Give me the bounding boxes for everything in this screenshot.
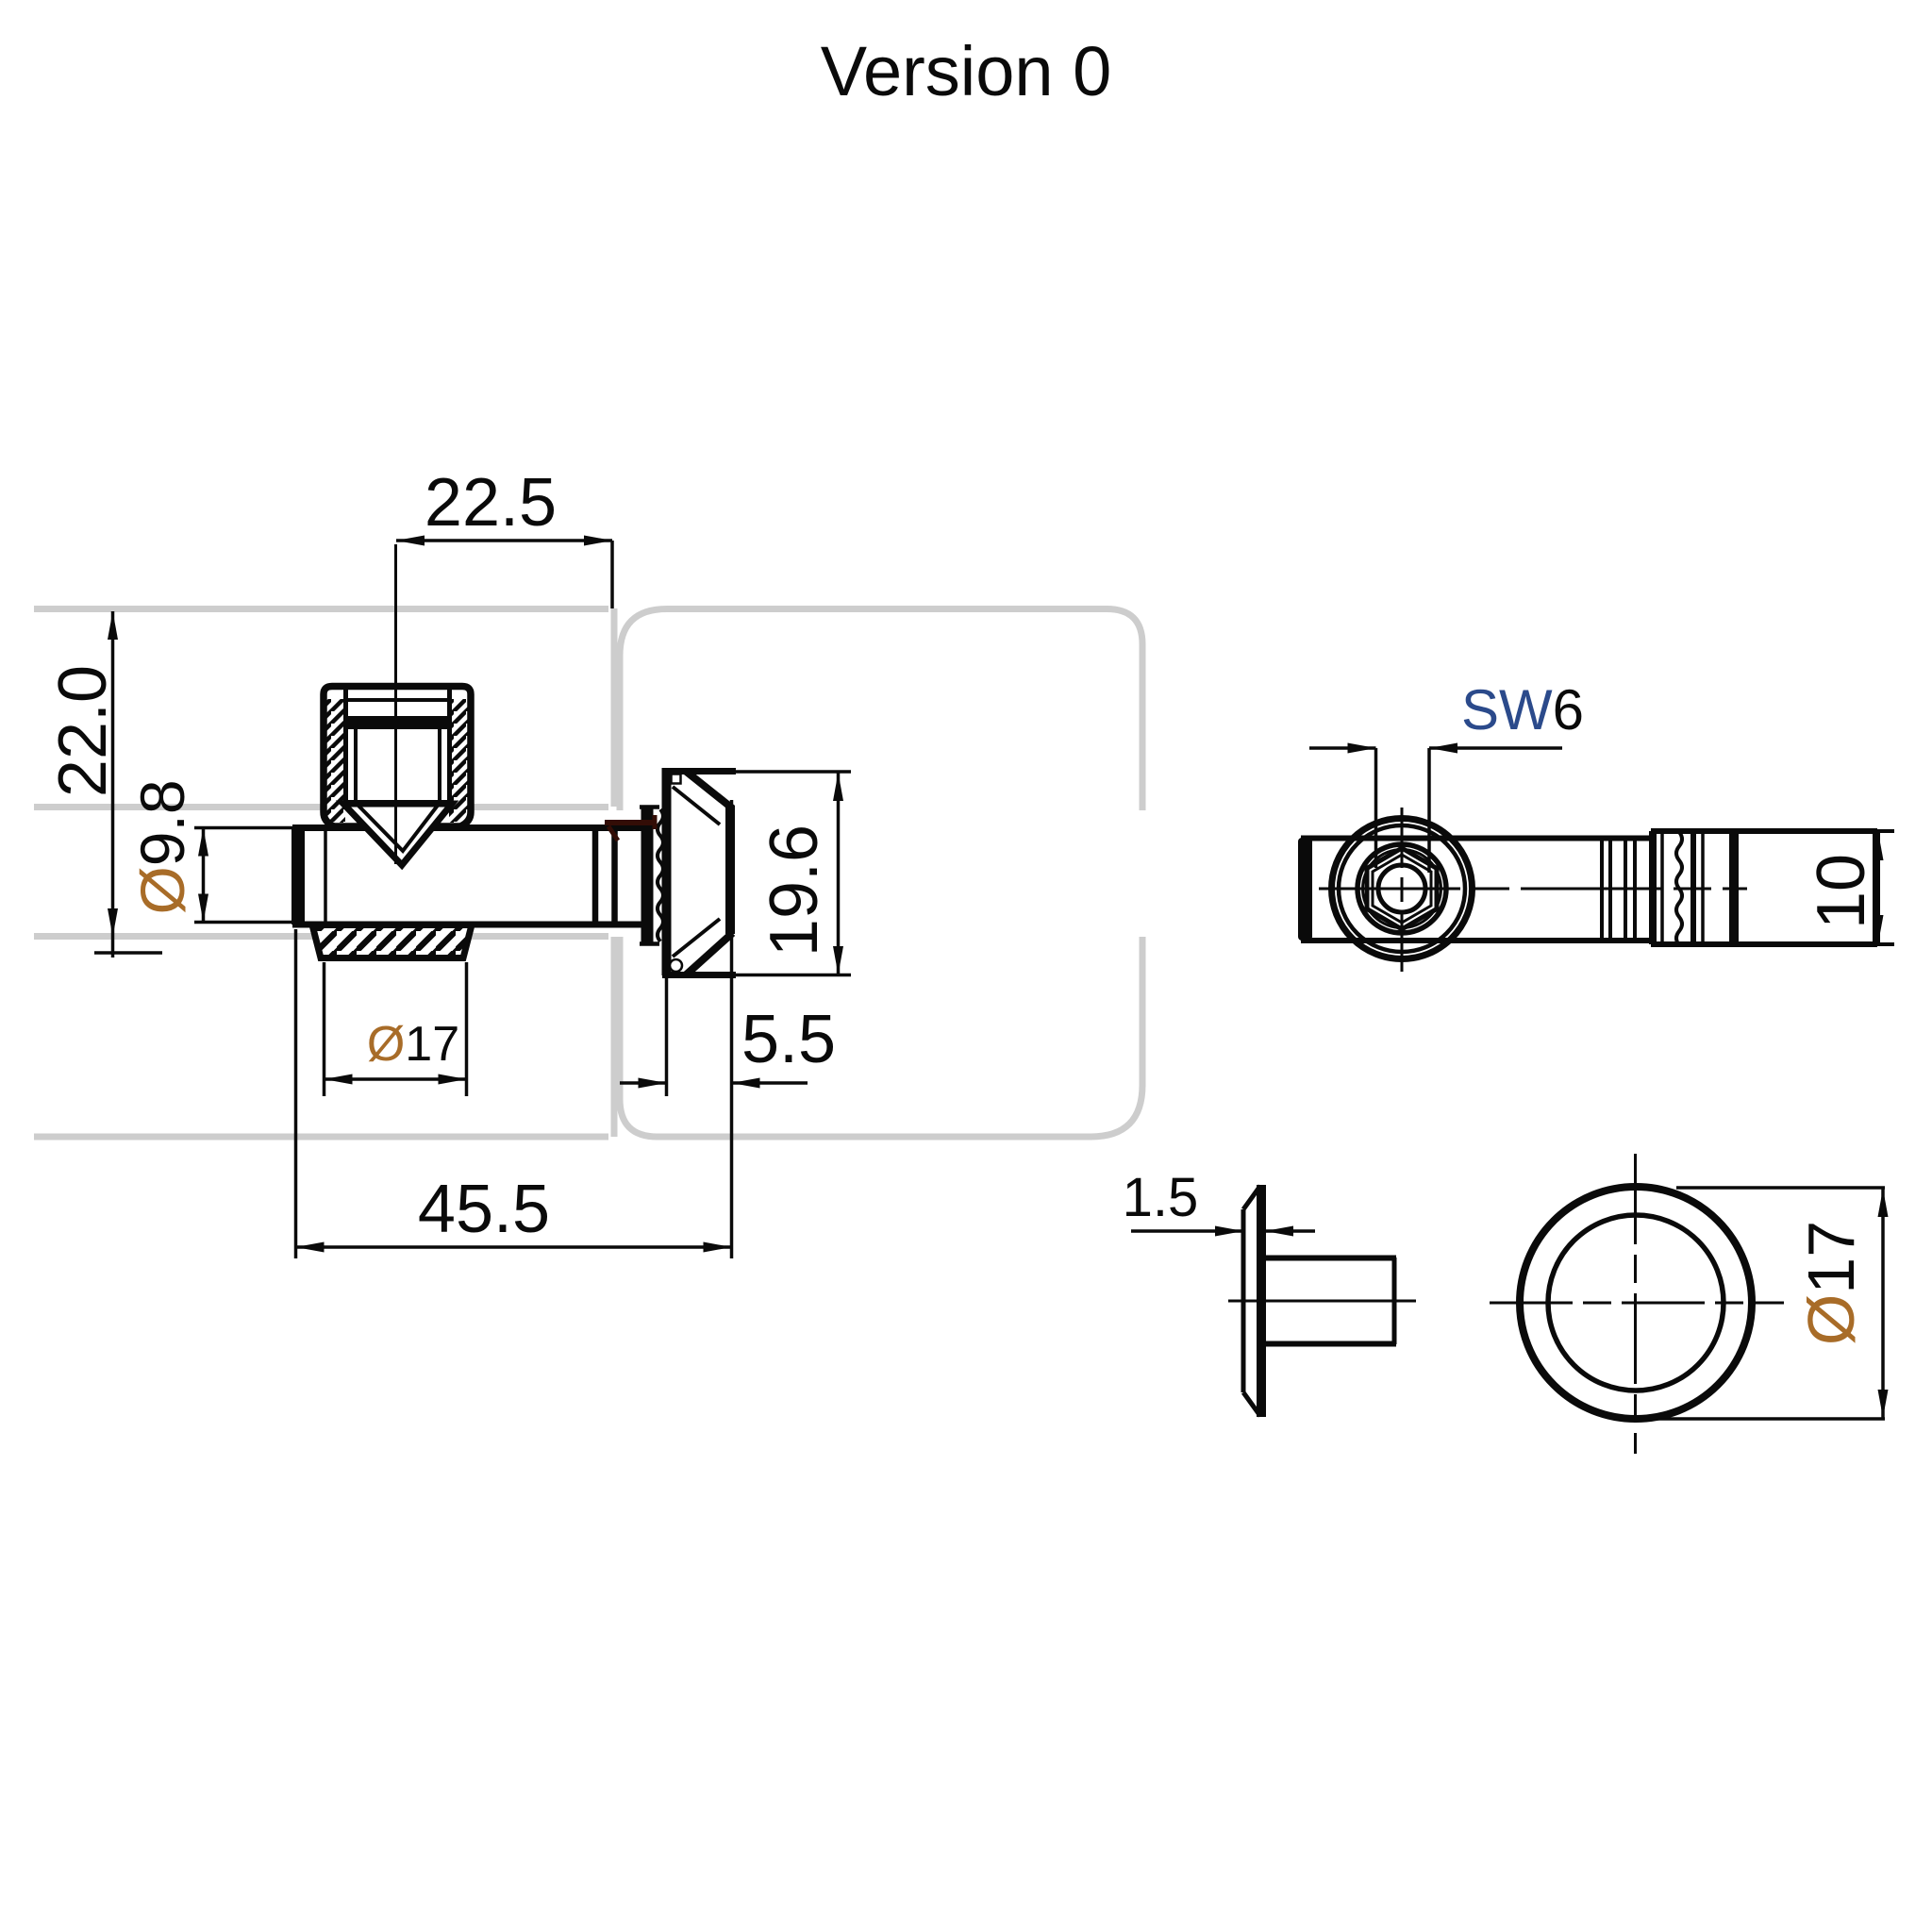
left profile slot top line bbox=[34, 804, 608, 810]
svg-text:Ø17: Ø17 bbox=[367, 1017, 459, 1072]
left profile top face line bbox=[34, 606, 608, 612]
hex socket bbox=[1367, 848, 1437, 929]
side view centerlines bbox=[1319, 808, 1747, 972]
screw axis centerline bbox=[394, 544, 397, 864]
svg-text:19.6: 19.6 bbox=[757, 824, 832, 957]
dimension Ø17 (cap view) bbox=[1638, 1188, 1889, 1419]
dark red cap edge accents bbox=[605, 815, 655, 841]
right profile outline upper part bbox=[620, 609, 1142, 811]
dimension 10 bbox=[1804, 831, 1894, 944]
svg-text:5.5: 5.5 bbox=[741, 1002, 836, 1077]
dimension 45.5 bbox=[296, 800, 732, 1258]
cover cap disc (hatched, section) bbox=[312, 925, 472, 958]
svg-text:Version 0: Version 0 bbox=[821, 32, 1112, 110]
side view body cylinder bbox=[1298, 838, 1651, 941]
svg-text:Ø9.8: Ø9.8 bbox=[127, 779, 197, 914]
left profile right edge upper bbox=[611, 608, 618, 807]
svg-text:1.5: 1.5 bbox=[1123, 1167, 1199, 1228]
dimension Ø9.8 bbox=[127, 779, 292, 922]
connector body shaft bbox=[291, 827, 642, 924]
left profile right edge lower bbox=[611, 937, 618, 1137]
svg-text:10: 10 bbox=[1804, 854, 1879, 929]
svg-text:22.0: 22.0 bbox=[45, 665, 121, 797]
dimension 22.5 bbox=[396, 465, 612, 608]
right profile outline lower part bbox=[620, 937, 1142, 1137]
svg-text:SW6: SW6 bbox=[1461, 678, 1584, 741]
svg-text:Ø17: Ø17 bbox=[1794, 1221, 1868, 1345]
cap front view circles bbox=[1490, 1154, 1784, 1454]
left profile bottom face line bbox=[34, 1134, 608, 1141]
dimension 22.0 bbox=[45, 611, 162, 958]
T-hammer head bbox=[662, 768, 851, 975]
serrated washer bbox=[640, 807, 663, 944]
dimension 5.5 bbox=[620, 975, 836, 1096]
cap side view body bbox=[1228, 1257, 1416, 1344]
dimension SW6 bbox=[1309, 678, 1584, 873]
side view washer and head end bbox=[1651, 831, 1877, 945]
svg-text:22.5: 22.5 bbox=[425, 465, 557, 541]
dimension 1.5 bbox=[1123, 1167, 1315, 1237]
dimension Ø17 (main view) bbox=[325, 962, 467, 1096]
side view groove rings bbox=[1602, 839, 1635, 940]
shaft groove rings bbox=[595, 828, 615, 924]
left profile slot bottom line bbox=[34, 933, 608, 940]
screw head circles (top view) bbox=[1332, 819, 1473, 959]
svg-text:45.5: 45.5 bbox=[418, 1172, 550, 1247]
dimension 19.6 bbox=[757, 773, 843, 974]
set screw head (section) bbox=[324, 687, 471, 866]
cap side view flange bbox=[1243, 1185, 1261, 1417]
